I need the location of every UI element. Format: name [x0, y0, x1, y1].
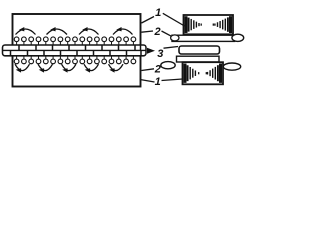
- svg-text:3: 3: [157, 48, 163, 60]
- svg-text:2: 2: [154, 63, 161, 75]
- svg-text:2: 2: [153, 26, 160, 38]
- svg-text:1: 1: [155, 7, 161, 19]
- svg-text:1: 1: [155, 76, 161, 88]
